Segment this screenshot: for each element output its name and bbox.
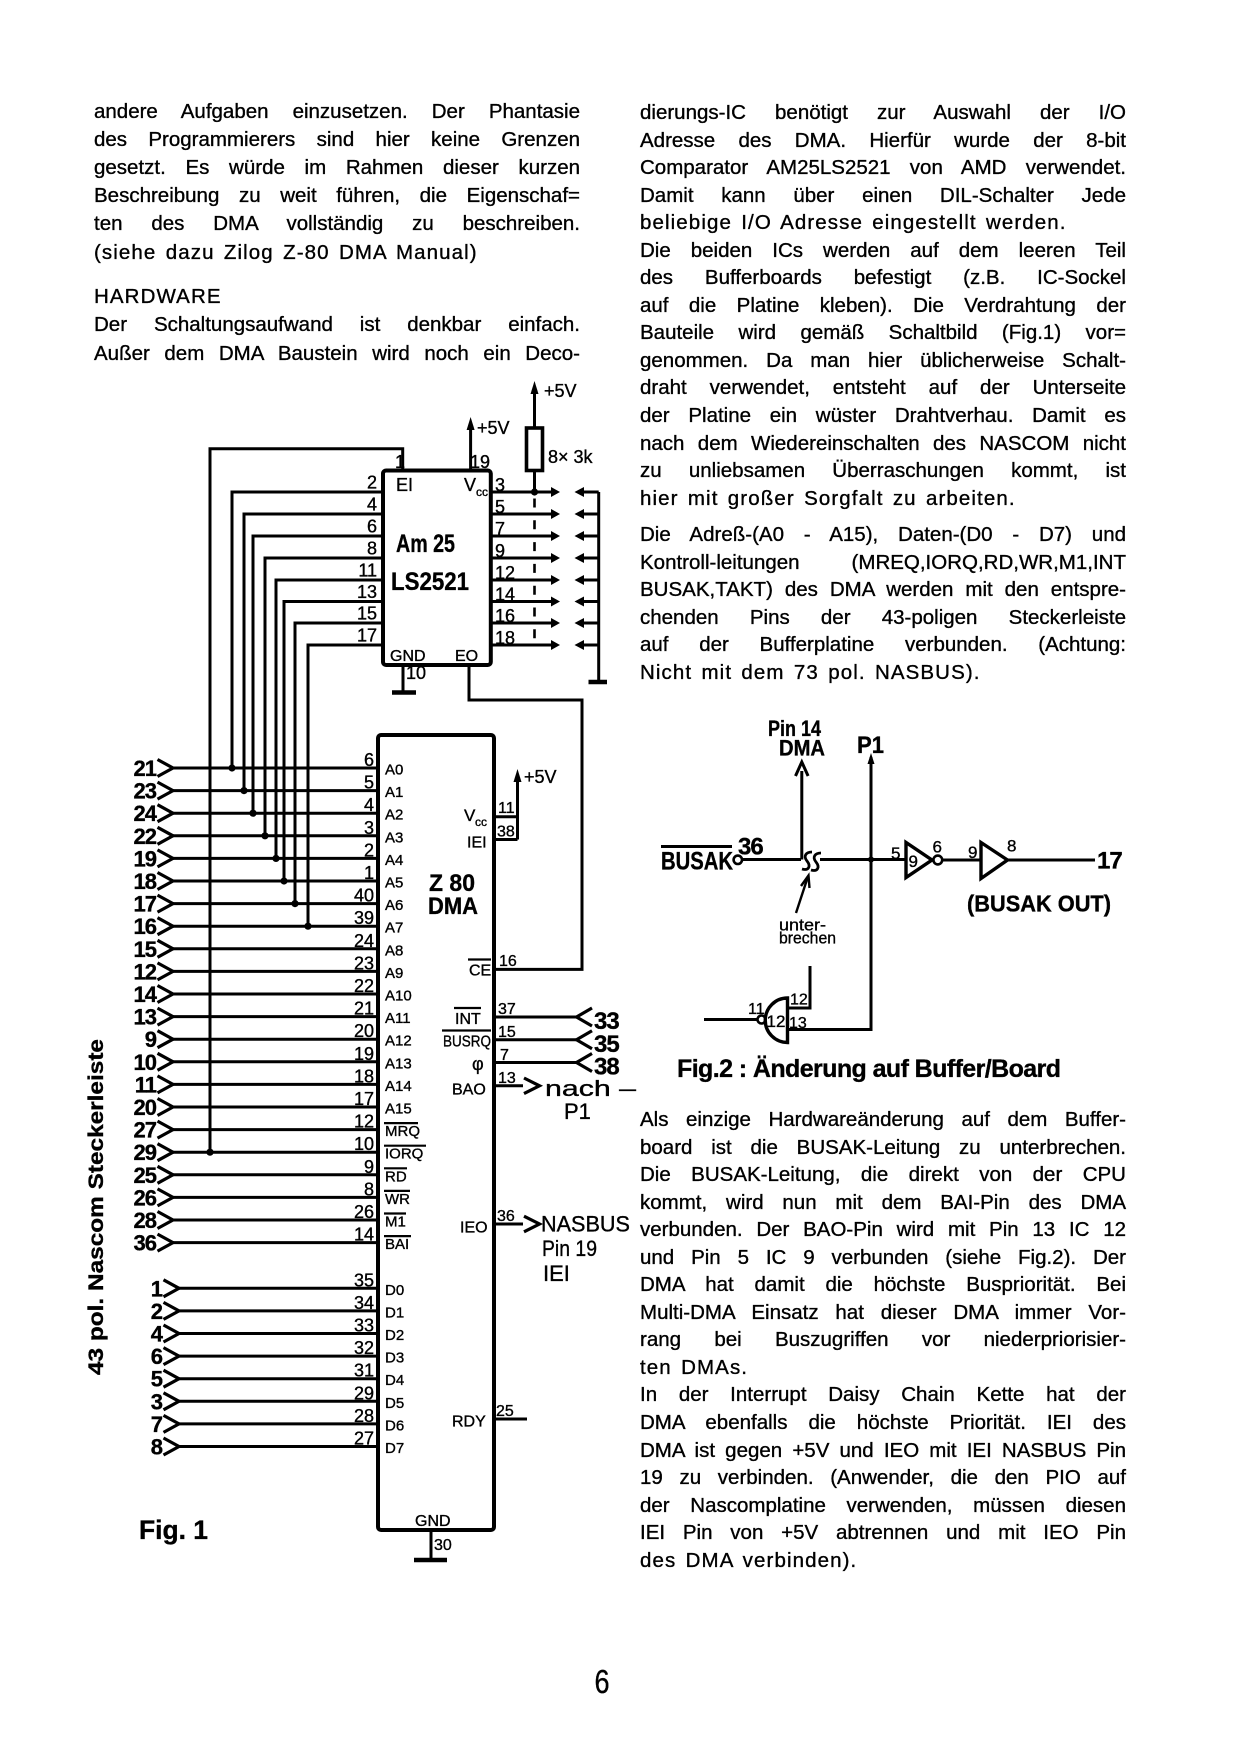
DIL switch contact, row pin 7 (575, 531, 599, 541)
power +5V label (U1 Vcc) (477, 418, 510, 438)
U2 phi output to NASBUS 38 (472, 1047, 619, 1081)
label unter-brechen (779, 916, 836, 948)
wire NASBUS pin 18 to U2 A5 (pin 1) (134, 863, 404, 894)
U2 pin 36 IEO output to NASBUS pin 19 (460, 1208, 540, 1237)
svg-text:A9: A9 (385, 965, 403, 982)
svg-text:9: 9 (364, 1157, 374, 1177)
wire NASBUS pin 13 to U2 A11 (pin 21) (134, 999, 411, 1030)
wire gate input (704, 1018, 758, 1021)
U1 pin EO label (455, 648, 478, 665)
node: NASBUS Pin 19 IEI label (541, 1212, 630, 1287)
op-amp-free zone: comparator IC U1 Am25LS2521 (383, 471, 491, 666)
label arrow unterbrechen (796, 876, 810, 914)
svg-text:EI: EI (396, 475, 413, 495)
svg-text:5: 5 (495, 497, 505, 517)
svg-text:14: 14 (495, 585, 515, 605)
svg-text:10: 10 (406, 663, 426, 683)
U1 label Am25 (396, 530, 455, 558)
svg-text:8: 8 (364, 1179, 374, 1199)
U2 pin 13 BAO output to P1 (452, 1070, 540, 1099)
wire NASBUS pin 21 to U2 A0 (pin 6) (134, 750, 404, 781)
svg-text:13: 13 (789, 1015, 807, 1032)
svg-text:A12: A12 (385, 1033, 412, 1050)
wire NASBUS pin 8 to U2 D7 (pin 27) (151, 1429, 404, 1460)
U2 pin 25 RDY stub (452, 1403, 527, 1431)
wire resistor bottom to pin3 row (531, 471, 538, 496)
U1 pin 2 wire to DMA address input (228, 473, 383, 772)
node BUSAK input label (661, 834, 763, 876)
DIL switch contact, row pin 14 (575, 597, 599, 607)
svg-text:5: 5 (891, 844, 900, 863)
wire NASBUS pin 17 to U2 A6 (pin 40) (134, 886, 404, 917)
DIL switch contact, row pin 3 (575, 487, 599, 497)
svg-text:D4: D4 (385, 1372, 404, 1389)
wire to Pin 14 DMA (arrow up) (796, 762, 809, 860)
svg-text:22: 22 (134, 824, 157, 849)
svg-text:10: 10 (134, 1050, 157, 1075)
svg-text:11: 11 (498, 800, 515, 817)
svg-text:5: 5 (151, 1367, 163, 1392)
svg-text:30: 30 (434, 1537, 452, 1554)
svg-text:GND: GND (415, 1513, 451, 1530)
svg-text:25: 25 (496, 1403, 514, 1420)
DIL switch contact, row pin 5 (575, 509, 599, 519)
wire buffer2 to pin 17 (1008, 848, 1123, 875)
label (BUSAK OUT) (967, 891, 1111, 917)
U1 pin 16 wire to DIL switch (491, 606, 560, 628)
svg-text:6: 6 (364, 750, 374, 770)
svg-text:V: V (464, 475, 476, 495)
svg-text:12: 12 (767, 1012, 786, 1031)
svg-text:7: 7 (500, 1047, 509, 1064)
svg-text:36: 36 (497, 1208, 515, 1225)
svg-text:23: 23 (354, 953, 374, 973)
ground symbol (U2 GND) (414, 1558, 447, 1563)
wire U1 EO to U2 CE (469, 665, 582, 969)
label Fig. 1 (139, 1515, 208, 1545)
svg-text:DMA: DMA (779, 736, 825, 761)
svg-text:NASBUS: NASBUS (541, 1212, 630, 1237)
U1 pin 1 wire (EI) from IORQ node (206, 449, 405, 1156)
svg-text:43 pol. Nascom Steckerleiste: 43 pol. Nascom Steckerleiste (85, 1039, 108, 1375)
svg-text:nach –: nach – (545, 1076, 637, 1101)
svg-text:D6: D6 (385, 1417, 404, 1434)
svg-text:8: 8 (1007, 837, 1016, 856)
wire NASBUS pin 28 to U2 M1 (pin 26) (134, 1202, 406, 1233)
svg-text:cc: cc (475, 815, 487, 829)
U1 pin EI label (396, 475, 413, 495)
svg-text:12: 12 (790, 992, 808, 1009)
svg-text:CE: CE (469, 963, 491, 980)
svg-text:6: 6 (151, 1344, 163, 1369)
svg-text:16: 16 (134, 914, 157, 939)
svg-text:D3: D3 (385, 1350, 404, 1367)
wire NASBUS pin 27 to U2 MRQ (pin 12) (134, 1112, 420, 1143)
node Pin 14 DMA label (768, 716, 825, 761)
svg-text:22: 22 (354, 976, 374, 996)
svg-text:D2: D2 (385, 1327, 404, 1344)
svg-text:18: 18 (134, 869, 157, 894)
U1 pin 14 wire to DIL switch (491, 585, 560, 607)
power +5V label (resistor network) (544, 381, 577, 401)
svg-text:RD: RD (385, 1168, 407, 1185)
wire NASBUS pin 3 to U2 D5 (pin 29) (151, 1383, 404, 1414)
svg-text:brechen: brechen (779, 929, 836, 948)
svg-text:37: 37 (498, 1001, 516, 1018)
U1 pin 9 wire to DIL switch (491, 541, 560, 563)
svg-text:17: 17 (1097, 848, 1122, 875)
svg-text:A15: A15 (385, 1101, 412, 1118)
U1 pin 15 wire to DMA address input (291, 604, 383, 908)
dashed bus of resistor network over switch rows (533, 499, 536, 642)
svg-text:32: 32 (354, 1338, 374, 1358)
U1 pin 5 wire to DIL switch (491, 497, 560, 519)
U1 pin Vcc label (464, 475, 488, 499)
svg-text:2: 2 (151, 1299, 163, 1324)
U2 label Z 80 (429, 870, 475, 897)
DIL switch contact, row pin 16 (575, 618, 599, 628)
svg-text:12: 12 (354, 1112, 374, 1132)
svg-text:+5V: +5V (544, 381, 577, 401)
svg-text:3: 3 (151, 1389, 163, 1414)
wire NASBUS pin 22 to U2 A3 (pin 3) (134, 818, 404, 849)
wire BUSAK to break (742, 858, 801, 861)
buffer gate IC9 pin5-6 (inverter) (891, 838, 942, 878)
svg-text:12: 12 (134, 959, 157, 984)
buffer gate IC? pin9-8 (968, 837, 1016, 879)
node: nach P1 label (545, 1076, 637, 1124)
svg-text:14: 14 (134, 982, 158, 1007)
svg-text:19: 19 (134, 846, 157, 871)
wire gate pin 12 up stub (788, 966, 811, 1009)
wire bubble to buffer 2 (943, 859, 982, 862)
svg-text:31: 31 (354, 1361, 374, 1381)
svg-text:27: 27 (134, 1118, 157, 1143)
DIL switch contact, row pin 9 (575, 553, 599, 563)
svg-text:20: 20 (354, 1021, 374, 1041)
U1 label LS2521 (391, 568, 469, 596)
svg-text:39: 39 (354, 908, 374, 928)
svg-text:A14: A14 (385, 1078, 412, 1095)
DIL switch contact, row pin 18 (575, 640, 599, 650)
svg-text:28: 28 (354, 1406, 374, 1426)
U2 pin 30 GND wire (415, 1513, 452, 1559)
power +5V label (U2) (524, 767, 557, 787)
wire NASBUS pin 11 to U2 A14 (pin 18) (135, 1066, 412, 1097)
svg-text:13: 13 (498, 1070, 516, 1087)
svg-text:A7: A7 (385, 920, 403, 937)
svg-text:9: 9 (968, 843, 977, 862)
svg-text:29: 29 (134, 1140, 157, 1165)
wire NASBUS pin 6 to U2 D3 (pin 32) (151, 1338, 404, 1369)
svg-text:17: 17 (134, 892, 157, 917)
U2 BUSRQ output to NASBUS 35 (442, 1024, 619, 1058)
wire NASBUS pin 10 to U2 A13 (pin 19) (134, 1044, 412, 1075)
U1 pin 19 Vcc wire to +5V (467, 417, 490, 472)
svg-text:A5: A5 (385, 875, 403, 892)
svg-text:φ: φ (472, 1054, 484, 1074)
wire NASBUS pin 29 to U2 IORQ (pin 10) (134, 1134, 426, 1165)
svg-text:IEO: IEO (460, 1220, 488, 1237)
svg-text:23: 23 (134, 779, 157, 804)
wire NASBUS pin 7 to U2 D6 (pin 28) (151, 1406, 404, 1437)
svg-text:cc: cc (476, 485, 488, 499)
svg-text:1: 1 (364, 863, 374, 883)
svg-text:4: 4 (367, 495, 377, 515)
svg-text:34: 34 (354, 1293, 374, 1313)
svg-text:15: 15 (357, 604, 377, 624)
wire gate pin 13 output (789, 1015, 807, 1032)
svg-text:12: 12 (495, 563, 515, 583)
ground symbol (switch bus) (589, 680, 608, 685)
svg-text:+5V: +5V (477, 418, 510, 438)
svg-text:1: 1 (395, 452, 405, 472)
break symbol (unterbrechen) (802, 852, 821, 870)
svg-text:BAO: BAO (452, 1082, 486, 1099)
svg-text:17: 17 (354, 1089, 374, 1109)
U2 INT output to NASBUS 33 (454, 1001, 619, 1035)
wire NASBUS pin 36 to U2 BAI (pin 14) (134, 1225, 411, 1256)
svg-text:6: 6 (367, 517, 377, 537)
svg-text:A8: A8 (385, 942, 403, 959)
svg-text:14: 14 (354, 1225, 374, 1245)
U1 pin 3 wire to DIL switch (491, 475, 560, 497)
svg-text:19: 19 (470, 452, 490, 472)
svg-text:18: 18 (495, 628, 515, 648)
svg-text:5: 5 (364, 773, 374, 793)
svg-text:19: 19 (354, 1044, 374, 1064)
label Fig.2 caption (677, 1055, 1061, 1083)
svg-text:EO: EO (455, 648, 478, 665)
svg-text:BUSRQ: BUSRQ (443, 1034, 491, 1051)
svg-text:Fig. 1: Fig. 1 (139, 1515, 208, 1545)
svg-text:17: 17 (357, 626, 377, 646)
wire NASBUS pin 24 to U2 A2 (pin 4) (134, 795, 404, 826)
svg-text:A6: A6 (385, 897, 403, 914)
U1 pin 13 wire to DMA address input (280, 582, 383, 885)
svg-text:M1: M1 (385, 1214, 406, 1231)
svg-text:9: 9 (909, 852, 918, 871)
svg-text:26: 26 (134, 1185, 157, 1210)
svg-text:A4: A4 (385, 852, 403, 869)
wire NASBUS pin 15 to U2 A8 (pin 24) (134, 931, 404, 962)
svg-text:7: 7 (151, 1412, 163, 1437)
U1 pin GND label (390, 648, 426, 665)
U1 pin 11 wire to DMA address input (272, 561, 383, 863)
U2 pin 16 CE label (468, 953, 517, 980)
svg-text:27: 27 (354, 1429, 374, 1449)
svg-text:33: 33 (354, 1316, 374, 1336)
wire NASBUS pin 16 to U2 A7 (pin 39) (134, 908, 404, 939)
svg-text:11: 11 (748, 1001, 765, 1018)
svg-text:Fig.2 : Änderung auf Buffer/B: Fig.2 : Änderung auf Buffer/Board (677, 1055, 1061, 1083)
svg-text:21: 21 (354, 999, 374, 1019)
U1 pin 10 GND wire (403, 663, 426, 692)
svg-text:8: 8 (151, 1435, 163, 1460)
ground symbol (U1 GND) (392, 690, 416, 695)
svg-text:9: 9 (145, 1027, 157, 1052)
svg-text:9: 9 (495, 541, 505, 561)
svg-text:BUSAK: BUSAK (661, 848, 733, 876)
svg-text:BAI: BAI (385, 1236, 409, 1253)
svg-text:16: 16 (499, 953, 517, 970)
U1 pin 18 wire to DIL switch (491, 628, 560, 650)
svg-text:25: 25 (134, 1163, 157, 1188)
svg-text:RDY: RDY (452, 1414, 486, 1431)
U1 pin 7 wire to DIL switch (491, 519, 560, 541)
wire NASBUS pin 23 to U2 A1 (pin 5) (134, 773, 404, 804)
svg-text:WR: WR (385, 1191, 410, 1208)
svg-text:29: 29 (354, 1383, 374, 1403)
svg-text:IEI: IEI (543, 1261, 570, 1286)
svg-text:A0: A0 (385, 762, 403, 779)
svg-text:(BUSAK OUT): (BUSAK OUT) (967, 891, 1111, 917)
wire P1 vertical to gate pin 13 (788, 753, 875, 1030)
svg-text:P1: P1 (564, 1099, 591, 1124)
svg-text:D7: D7 (385, 1440, 404, 1457)
svg-text:13: 13 (134, 1005, 157, 1030)
U1 pin 17 wire to DMA address input (304, 626, 383, 930)
U2 Vcc label (464, 806, 487, 829)
svg-text:LS2521: LS2521 (391, 568, 469, 596)
svg-text:8× 3k: 8× 3k (548, 447, 594, 467)
wire NASBUS pin 14 to U2 A10 (pin 22) (134, 976, 412, 1007)
svg-text:24: 24 (354, 931, 374, 951)
svg-text:4: 4 (364, 795, 374, 815)
svg-text:A13: A13 (385, 1055, 412, 1072)
svg-text:24: 24 (134, 801, 158, 826)
U2 label DMA (428, 893, 478, 920)
svg-text:D5: D5 (385, 1395, 404, 1412)
svg-text:A11: A11 (385, 1010, 411, 1027)
svg-text:13: 13 (357, 582, 377, 602)
svg-text:21: 21 (134, 756, 157, 781)
svg-text:11: 11 (358, 561, 377, 581)
svg-text:7: 7 (495, 519, 505, 539)
label 43 pol. Nascom Steckerleiste (85, 1039, 108, 1375)
U2 pin 11 Vcc and pin 38 IEI wires to +5V (494, 769, 522, 841)
terminal circle BUSAK (734, 856, 742, 864)
svg-text:A1: A1 (385, 784, 403, 801)
svg-text:15: 15 (498, 1024, 516, 1041)
svg-text:15: 15 (134, 937, 157, 962)
svg-text:36: 36 (134, 1231, 157, 1256)
DIL switch contact, row pin 12 (575, 575, 599, 585)
svg-text:Am 25: Am 25 (396, 530, 455, 558)
svg-text:2: 2 (364, 840, 374, 860)
wire NASBUS pin 20 to U2 A15 (pin 17) (134, 1089, 412, 1120)
U2 IEI label (467, 835, 487, 852)
node P1 label (857, 732, 884, 759)
svg-text:3: 3 (495, 475, 505, 495)
wire NASBUS pin 4 to U2 D2 (pin 33) (151, 1316, 404, 1347)
svg-text:A10: A10 (385, 988, 412, 1005)
svg-text:D0: D0 (385, 1282, 404, 1299)
gate input bubble pin 11 (748, 1001, 766, 1024)
wire break to buffer 1 (820, 857, 906, 863)
inverter output bubble (933, 856, 942, 865)
svg-text:A3: A3 (385, 829, 403, 846)
svg-text:8: 8 (367, 539, 377, 559)
svg-text:16: 16 (495, 606, 515, 626)
wire NASBUS pin 1 to U2 D0 (pin 35) (151, 1270, 404, 1301)
NAND gate IC12 (mirrored) (765, 998, 787, 1043)
svg-text:1: 1 (151, 1276, 163, 1301)
U1 pin 8 wire to DMA address input (261, 539, 383, 840)
svg-text:35: 35 (354, 1270, 374, 1290)
U1 pin 4 wire to DMA address input (240, 495, 383, 795)
svg-text:INT: INT (455, 1011, 481, 1028)
svg-text:26: 26 (354, 1202, 374, 1222)
svg-text:3: 3 (364, 818, 374, 838)
resistor R1 8x3k pull-up network (527, 428, 594, 471)
svg-text:+5V: +5V (524, 767, 557, 787)
svg-text:20: 20 (134, 1095, 157, 1120)
wire NASBUS pin 5 to U2 D4 (pin 31) (151, 1361, 404, 1392)
svg-text:28: 28 (134, 1208, 157, 1233)
wire NASBUS pin 2 to U2 D1 (pin 34) (151, 1293, 404, 1324)
svg-text:IEI: IEI (467, 835, 487, 852)
U1 pin 12 wire to DIL switch (491, 563, 560, 585)
IC U2 Z80 DMA (378, 735, 494, 1530)
wire NASBUS pin 25 to U2 RD (pin 9) (134, 1157, 407, 1188)
svg-text:A2: A2 (385, 807, 403, 824)
svg-text:MRQ: MRQ (385, 1123, 420, 1140)
svg-text:D1: D1 (385, 1304, 404, 1321)
svg-text:10: 10 (354, 1134, 374, 1154)
svg-text:4: 4 (151, 1322, 164, 1347)
svg-text:Pin 19: Pin 19 (542, 1236, 597, 1261)
svg-text:40: 40 (354, 886, 374, 906)
wire NASBUS pin 12 to U2 A9 (pin 23) (134, 953, 404, 984)
svg-text:18: 18 (354, 1066, 374, 1086)
svg-text:38: 38 (497, 824, 515, 841)
wire NASBUS pin 26 to U2 WR (pin 8) (134, 1179, 411, 1210)
svg-text:2: 2 (367, 473, 377, 493)
svg-text:6: 6 (933, 838, 942, 857)
wire NASBUS pin 19 to U2 A4 (pin 2) (134, 840, 404, 871)
svg-text:IORQ: IORQ (385, 1146, 423, 1163)
wire NASBUS pin 9 to U2 A12 (pin 20) (145, 1021, 412, 1052)
wire resistor top to +5V (531, 381, 539, 428)
U1 pin 6 wire to DMA address input (249, 517, 383, 817)
svg-text:11: 11 (135, 1072, 157, 1097)
svg-text:DMA: DMA (428, 893, 478, 920)
wire: switch common bus (597, 492, 600, 681)
